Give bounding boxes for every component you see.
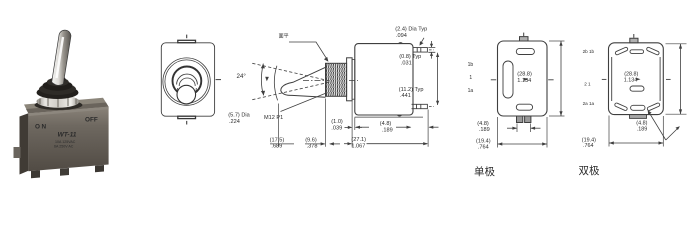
sp view: right height dim line — [560, 41, 562, 116]
svg-text:.031: .031 — [401, 60, 412, 66]
sp view: bottom slot — [516, 104, 532, 110]
photo: side terminal tab — [14, 147, 21, 158]
svg-text:1.067: 1.067 — [351, 143, 365, 149]
sp view: terminals below — [517, 116, 523, 123]
photo: bottom feet — [31, 170, 40, 178]
dp view: top tick — [633, 34, 635, 38]
svg-text:M12 P1: M12 P1 — [264, 115, 283, 121]
side view: small arrow on upper dash — [265, 77, 269, 81]
dp view: top-right angled slot — [646, 47, 659, 56]
photo: hex nut — [37, 95, 80, 107]
sp view: (19.4) dim line — [498, 143, 548, 145]
front view: lever shaft arcs — [177, 74, 198, 84]
dp view: leader second segment — [666, 127, 679, 140]
dp view: bottom-center slot — [631, 105, 645, 110]
side view: (2.4) leader arrow — [420, 38, 424, 44]
photo: body front face — [28, 107, 108, 172]
side view: lever paddle — [281, 67, 326, 97]
sp view: side ticks — [491, 79, 496, 81]
svg-text:单极: 单极 — [474, 165, 495, 178]
photo: body top face shading — [26, 103, 109, 114]
svg-text:.189: .189 — [382, 128, 393, 134]
dp view: bottom-right angled slot — [647, 102, 660, 111]
sp view: body outline — [498, 41, 548, 116]
svg-text:.764: .764 — [583, 143, 594, 149]
svg-text:(17.5): (17.5) — [270, 137, 285, 143]
side view: lower throw dashed line — [252, 82, 331, 100]
svg-text:.094: .094 — [396, 33, 407, 39]
svg-text:(11.2) Typ: (11.2) Typ — [399, 87, 424, 93]
dp view: bottom terminal strip — [630, 115, 647, 119]
photo: body left side face — [20, 113, 29, 174]
dp view: (19.4) ext lines — [608, 116, 610, 147]
side view: 面平 leader — [289, 42, 328, 60]
dp view: center slot — [630, 86, 644, 91]
svg-text:1: 1 — [469, 75, 472, 81]
dp view: right height dim line — [680, 44, 682, 114]
svg-text:面平: 面平 — [279, 34, 289, 40]
side view: (9.6) dim line with arrows — [305, 143, 325, 145]
side view: extension lines — [278, 104, 280, 147]
svg-text:(2.4) Dia Typ: (2.4) Dia Typ — [395, 27, 427, 33]
side view: (11.2) vertical dim line — [437, 53, 439, 105]
photo: rubber boot dome rings — [37, 86, 79, 99]
sp view: (19.4) ext lines — [497, 117, 499, 148]
svg-text:2b 1b: 2b 1b — [583, 49, 595, 54]
svg-text:2a 1a: 2a 1a — [583, 101, 595, 106]
svg-text:(5.7) Dia: (5.7) Dia — [228, 113, 250, 119]
svg-text:10A 125VAC: 10A 125VAC — [55, 140, 76, 144]
side view: (27.1) dim line — [344, 143, 351, 145]
front view: bushing opening ring — [173, 67, 202, 96]
side view: centerline — [303, 80, 358, 82]
svg-text:.189: .189 — [637, 127, 648, 133]
photo: chrome lever — [52, 30, 71, 85]
svg-text:ON: ON — [35, 124, 48, 131]
side view: mounting plate (1.0) — [352, 59, 355, 99]
dp view: side ticks — [602, 78, 607, 80]
svg-text:.764: .764 — [478, 145, 489, 151]
side view: lever sweep arc — [274, 66, 277, 101]
svg-text:.224: .224 — [229, 119, 240, 125]
side view: 24 deg angle arc with arrows — [261, 64, 263, 96]
dp view: top-left angled slot — [615, 47, 628, 56]
photo: front face top edge highlight — [28, 107, 108, 116]
svg-text:(28.8): (28.8) — [517, 71, 532, 77]
front view: bottom mounting tab — [178, 116, 196, 118]
side view: base line under body — [355, 116, 423, 118]
front view: top tick — [186, 35, 188, 39]
side view: (1.0) dim arrows — [345, 126, 352, 128]
side view: threaded bushing M12 — [326, 63, 347, 96]
dp view: bottom-left angled slot — [614, 102, 627, 111]
side view: locknut — [347, 58, 353, 101]
dp view: top-center slot — [630, 50, 644, 54]
dp view: (19.4) dim line — [609, 142, 663, 144]
sp view: right height dim ticks — [549, 40, 565, 42]
sp view: label leader arrow — [524, 78, 529, 81]
front view: lever ball end — [177, 85, 196, 104]
svg-text:.378: .378 — [307, 144, 318, 150]
dp view: leader to bottom slot — [649, 112, 666, 141]
svg-text:(27.1): (27.1) — [351, 137, 366, 143]
sp view: left vertical slot — [503, 61, 513, 98]
sp view: (4.8) ext lines — [516, 124, 518, 133]
dp view: top tab — [630, 38, 638, 43]
side view: body outline — [355, 44, 413, 115]
svg-text:(19.4): (19.4) — [476, 138, 491, 144]
svg-text:(1.0): (1.0) — [331, 119, 343, 125]
svg-text:.689: .689 — [271, 144, 282, 150]
dp view: left edge groove — [611, 57, 613, 101]
dp view: right height dim ticks — [666, 43, 687, 45]
front view: right tick — [216, 79, 221, 81]
dp view: right edge groove — [659, 57, 661, 101]
front view: outer bezel circles — [163, 58, 210, 105]
svg-text:.039: .039 — [331, 125, 342, 131]
svg-text:.189: .189 — [479, 127, 490, 133]
svg-text:6A 250V AC: 6A 250V AC — [54, 144, 74, 148]
svg-text:1.134: 1.134 — [624, 77, 638, 83]
svg-text:(4.8): (4.8) — [477, 121, 489, 127]
sp view: top tab — [520, 37, 529, 41]
svg-text:.441: .441 — [400, 93, 411, 99]
side view: bottom terminal pin — [412, 104, 428, 108]
svg-text:2 1: 2 1 — [584, 81, 591, 86]
svg-text:双极: 双极 — [579, 164, 600, 177]
svg-text:(9.6): (9.6) — [305, 137, 317, 143]
side view: (4.8) dim arrows — [356, 126, 369, 128]
svg-text:(4.8): (4.8) — [380, 121, 392, 127]
front view: lever cone sides — [178, 88, 197, 93]
sp view: (4.8) arrows — [507, 127, 517, 129]
front view: body outline — [161, 43, 214, 116]
side view: (0.8) dim ticks and arrows — [428, 47, 435, 52]
svg-text:1b: 1b — [468, 62, 474, 68]
svg-text:OFF: OFF — [85, 117, 98, 124]
side view: (17.5) dim line — [270, 143, 294, 145]
side view: upper throw dashed line — [252, 63, 331, 81]
side view: top terminal pin — [413, 48, 427, 53]
side view: bottom mold bump — [397, 115, 401, 116]
dp view: body outline — [609, 43, 664, 115]
svg-text:WT-11: WT-11 — [58, 132, 77, 139]
front view: bottom tick — [186, 121, 188, 125]
photo: bushing boss shadow on top face — [35, 100, 83, 110]
side view: top mold bump — [398, 43, 402, 44]
photo: body top face — [24, 98, 109, 114]
dp view: label leader arrow — [636, 78, 641, 81]
sp view: top slot — [516, 49, 534, 55]
svg-text:(0.8) Typ: (0.8) Typ — [399, 54, 421, 60]
side view: M12 leader — [281, 93, 328, 112]
sp view: top tick — [523, 33, 525, 37]
svg-text:24°: 24° — [237, 73, 247, 80]
front view: top mounting tab — [178, 40, 196, 42]
svg-text:1a: 1a — [468, 88, 474, 94]
